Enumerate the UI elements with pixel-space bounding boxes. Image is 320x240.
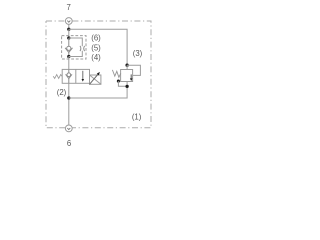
V1 spring xyxy=(53,75,62,79)
wire: junction A right and down to relief valve xyxy=(69,29,127,65)
svg-text:(1): (1) xyxy=(132,113,142,122)
svg-text:(2): (2) xyxy=(57,88,67,97)
orifice branch wire xyxy=(69,38,83,57)
RV1 outlet wire xyxy=(69,82,127,99)
check valve CV1 (ball in vee seat) xyxy=(68,38,70,46)
RV1 pilot loop xyxy=(127,65,140,75)
V1 left position: check poppet xyxy=(68,69,70,73)
svg-text:6: 6 xyxy=(67,139,71,148)
svg-text:(4): (4) xyxy=(91,53,101,62)
boundary box (cartridge envelope, dash-dot) xyxy=(46,21,151,128)
orifice O1 xyxy=(80,46,85,51)
svg-text:7: 7 xyxy=(67,3,71,12)
svg-text:(5): (5) xyxy=(91,44,101,53)
dashed sub-assembly box xyxy=(62,36,86,59)
junction E (relief valve top) xyxy=(125,64,128,67)
svg-text:(3): (3) xyxy=(133,49,143,58)
RV1 spring drain with junction dot xyxy=(117,80,120,83)
RV1 internal arrow xyxy=(130,74,132,78)
wire: sub-assembly to directional valve V1 xyxy=(68,57,70,70)
wire: junction A down to sub-assembly xyxy=(68,29,70,38)
junction F xyxy=(125,85,128,88)
wire: V1 down to junction D xyxy=(68,83,70,125)
wire: junction E into relief valve xyxy=(126,65,128,69)
relief valve RV1 body xyxy=(121,70,133,82)
wire: port 7 down to junction A xyxy=(68,24,70,29)
V1 solenoid with arrow xyxy=(90,75,101,84)
directional valve V1 body xyxy=(62,69,89,83)
RV1 spring xyxy=(112,70,120,77)
junction A xyxy=(67,28,70,31)
junction D xyxy=(67,96,70,99)
port 7 symbol xyxy=(65,18,72,25)
port 6 symbol xyxy=(65,125,72,132)
junction C (bottom of check/orifice) xyxy=(67,55,70,58)
V1 right position: downward flow arrow xyxy=(82,71,84,80)
junction B (top of check/orifice) xyxy=(67,36,70,39)
svg-text:(6): (6) xyxy=(91,33,101,42)
